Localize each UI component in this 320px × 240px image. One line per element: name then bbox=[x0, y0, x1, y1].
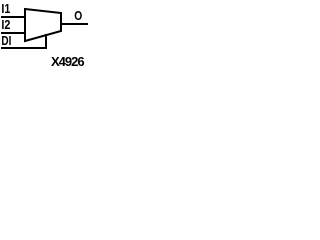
svg-text:DI: DI bbox=[1, 33, 11, 48]
svg-text:I1: I1 bbox=[1, 1, 10, 16]
svg-text:X4926: X4926 bbox=[51, 54, 84, 69]
svg-text:I2: I2 bbox=[1, 17, 10, 32]
svg-text:O: O bbox=[74, 8, 82, 23]
